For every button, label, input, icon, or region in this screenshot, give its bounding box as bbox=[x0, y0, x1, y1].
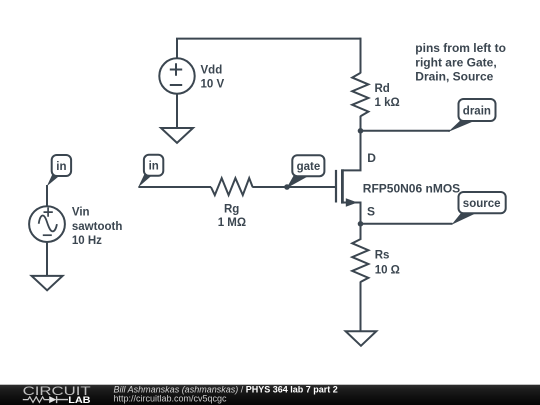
svg-text:right are Gate,: right are Gate, bbox=[415, 55, 496, 69]
node label gate bbox=[287, 155, 325, 188]
node junction dot source bbox=[358, 221, 364, 227]
svg-text:pins from left to: pins from left to bbox=[415, 41, 506, 55]
wire source node to Rs bbox=[360, 224, 362, 240]
wire in to Rg bbox=[138, 186, 211, 188]
svg-text:Rg: Rg bbox=[224, 204, 239, 216]
svg-text:source: source bbox=[463, 198, 501, 210]
CircuitLab logo bbox=[23, 386, 91, 405]
node label in (left, at Vin) bbox=[47, 155, 71, 186]
resistor Rs 10 Ohm bbox=[352, 239, 400, 282]
node label in (at gate wire) bbox=[138, 155, 163, 188]
wire drain node to drain label bbox=[361, 130, 451, 132]
svg-text:http://circuitlab.com/cv5qcgc: http://circuitlab.com/cv5qcgc bbox=[114, 393, 228, 403]
resistor Rd 1 kOhm bbox=[352, 73, 400, 116]
node junction dot gate bbox=[284, 184, 290, 190]
wire Vdd top lead bbox=[176, 39, 178, 59]
wire rail down to Rd bbox=[360, 38, 362, 74]
wire drain node to transistor drain bbox=[342, 131, 360, 171]
svg-text:D: D bbox=[367, 151, 376, 165]
voltage source Vin sawtooth 10 Hz bbox=[29, 206, 122, 247]
svg-text:Vdd: Vdd bbox=[201, 65, 223, 77]
resistor Rg 1 MOhm bbox=[211, 178, 253, 229]
annotation pins from left to right are Gate, Drain, Source bbox=[415, 41, 506, 84]
wire Rd to drain node bbox=[360, 116, 362, 131]
wire source node to source label bbox=[361, 223, 453, 225]
wire in label to Vin top bbox=[46, 185, 48, 206]
wire Rg to gate bbox=[252, 186, 335, 188]
ground below Vin bbox=[32, 276, 63, 290]
transistor Q1 RFP50N06 nMOS bbox=[336, 151, 460, 224]
wire Vin bottom lead bbox=[46, 242, 48, 276]
node label drain bbox=[448, 99, 496, 132]
footer credit text bbox=[114, 385, 338, 404]
svg-text:10 Hz: 10 Hz bbox=[72, 235, 102, 247]
ground below Vdd bbox=[161, 128, 193, 143]
footer bar bbox=[0, 385, 540, 405]
svg-text:10 Ω: 10 Ω bbox=[375, 264, 400, 276]
voltage source Vdd 10 V bbox=[159, 58, 224, 93]
svg-text:10 V: 10 V bbox=[201, 79, 225, 91]
svg-text:drain: drain bbox=[463, 105, 491, 117]
svg-text:1 MΩ: 1 MΩ bbox=[218, 217, 246, 229]
svg-text:in: in bbox=[149, 161, 159, 173]
wire Rs to ground bbox=[360, 282, 362, 332]
node junction dot drain bbox=[358, 128, 364, 134]
wire Vdd bottom lead bbox=[176, 94, 178, 128]
svg-text:S: S bbox=[367, 205, 375, 219]
svg-text:Vin: Vin bbox=[72, 207, 90, 219]
svg-text:sawtooth: sawtooth bbox=[72, 221, 122, 233]
node label source bbox=[452, 192, 506, 225]
svg-text:gate: gate bbox=[297, 161, 321, 173]
svg-text:Rd: Rd bbox=[375, 83, 390, 95]
svg-text:1 kΩ: 1 kΩ bbox=[375, 97, 400, 109]
svg-text:LAB: LAB bbox=[68, 396, 90, 405]
svg-text:Rs: Rs bbox=[375, 249, 390, 261]
ground below Rs bbox=[346, 331, 377, 346]
wire top rail from Vdd to Rd bbox=[176, 38, 361, 40]
svg-text:in: in bbox=[56, 161, 66, 173]
svg-text:RFP50N06 nMOS: RFP50N06 nMOS bbox=[363, 181, 460, 195]
svg-text:Drain, Source: Drain, Source bbox=[415, 70, 493, 84]
